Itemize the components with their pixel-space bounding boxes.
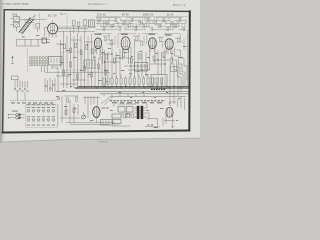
svg-text:Gedruckt: Gedruckt bbox=[98, 141, 108, 144]
